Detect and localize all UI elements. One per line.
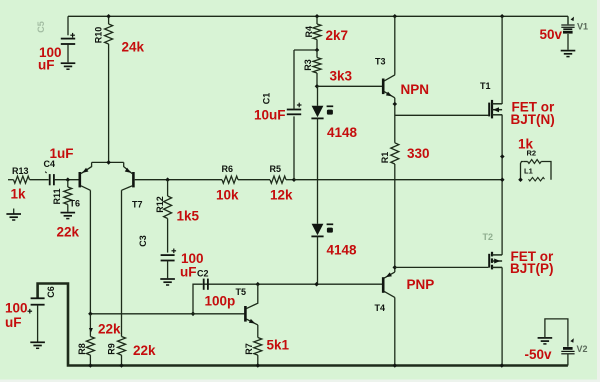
wire T3 collector to rail [394, 16, 396, 75]
label 22k R9 [133, 343, 156, 358]
label T1 [480, 81, 491, 91]
wire T1 drain [501, 16, 503, 104]
resistor R1 330 [391, 143, 399, 272]
node A input junction [66, 177, 71, 182]
label NPN [401, 82, 430, 97]
ground C6 [30, 342, 45, 348]
wire C4 to node A [54, 179, 79, 181]
resistor R4 2k7 [313, 16, 321, 50]
capacitor C6 [28, 298, 45, 341]
label R7 [244, 343, 254, 355]
wire feedback to output [294, 179, 502, 181]
label 5k1 [267, 338, 290, 353]
resistor R10 [105, 16, 113, 162]
ground V1 [561, 51, 576, 57]
label 2k7 [326, 28, 349, 43]
ground C5 [61, 63, 76, 69]
label T3 [375, 57, 386, 67]
node output tap [500, 177, 505, 182]
transistor U-T2 mosfet [489, 252, 502, 270]
resistor R6 10k [222, 176, 270, 183]
node D1 junction [315, 84, 320, 89]
svg-text:330: 330 [407, 146, 430, 161]
label 50v [540, 27, 563, 42]
transistor T3 [383, 75, 395, 98]
svg-text:T1: T1 [480, 81, 491, 91]
wire T6 collector [89, 190, 91, 313]
node tail junction [106, 160, 111, 165]
wire V1 drop [567, 16, 569, 24]
svg-text:R12: R12 [155, 196, 165, 213]
label 100uF C5 [38, 45, 62, 73]
wire ground bus [38, 284, 568, 366]
label R6 [222, 164, 234, 174]
ground V2 hook [538, 319, 568, 347]
svg-text:T6: T6 [70, 199, 81, 209]
label T7 [132, 200, 143, 210]
label 12k [270, 188, 293, 203]
svg-text:BJT(P): BJT(P) [510, 261, 554, 276]
label C4 [44, 159, 56, 169]
label D1 [327, 106, 334, 114]
node R4R3 junction [315, 48, 320, 53]
ground C3 [160, 279, 175, 285]
node top rail junctions [106, 14, 504, 19]
label R5 [270, 164, 282, 174]
label 330 [407, 146, 430, 161]
label -50v [525, 347, 553, 362]
svg-text:R13: R13 [12, 166, 29, 176]
node T2 gate junction [393, 265, 398, 270]
resistor R2 [521, 160, 552, 180]
svg-text:4148: 4148 [327, 243, 358, 258]
label 100p [205, 294, 236, 309]
diode D1 [311, 86, 323, 224]
svg-text:22k: 22k [133, 343, 156, 358]
svg-text:10k: 10k [216, 188, 239, 203]
svg-text:T7: T7 [132, 200, 143, 210]
wire C2 left bracket [193, 284, 203, 314]
label T4 [375, 303, 386, 313]
svg-text:C2: C2 [197, 269, 209, 279]
label 24k [122, 40, 145, 55]
resistor R9 22k [118, 337, 126, 366]
transistor T5 [245, 284, 257, 325]
label 4148 lower [327, 243, 358, 258]
svg-text:T5: T5 [236, 287, 247, 297]
svg-text:1k: 1k [11, 187, 27, 202]
svg-text:V1: V1 [577, 22, 588, 32]
label R9 [107, 343, 117, 355]
wire D1 node to T3 base [317, 85, 382, 87]
resistor R12 [164, 180, 172, 253]
resistor R8 22k [86, 314, 94, 366]
svg-text:3k3: 3k3 [330, 69, 353, 84]
node R2 junction [518, 177, 523, 182]
svg-text:12k: 12k [270, 188, 293, 203]
svg-text:C1: C1 [262, 93, 272, 105]
label C6 [46, 286, 56, 298]
label R4 [304, 26, 314, 38]
label 22k R8 [98, 322, 121, 337]
label T5 [236, 287, 247, 297]
label L1 [524, 167, 533, 176]
wire tail bar [92, 161, 124, 163]
wire to T1 gate [395, 114, 489, 116]
resistor R5 12k [270, 176, 294, 183]
label T6 [70, 199, 81, 209]
capacitor C1 [287, 50, 302, 180]
svg-text:uF: uF [38, 58, 55, 73]
label 1uF [50, 146, 74, 161]
svg-text:V2: V2 [577, 344, 588, 354]
transistor T4 [383, 272, 395, 297]
svg-text:2k7: 2k7 [326, 28, 349, 43]
svg-text:4148: 4148 [327, 125, 358, 140]
battery V2 [561, 338, 574, 365]
svg-text:R3: R3 [303, 59, 313, 71]
svg-text:C5: C5 [36, 21, 46, 33]
label 4148 upper [327, 125, 358, 140]
svg-text:1k5: 1k5 [177, 209, 200, 224]
label R10 [94, 27, 104, 44]
svg-text:R7: R7 [244, 343, 254, 355]
node D2 cathode junction [314, 282, 319, 287]
label BJT(P) [510, 261, 554, 276]
label T2 [483, 232, 494, 242]
label R13 [12, 166, 29, 176]
wire T7 collector [121, 190, 123, 336]
svg-text:uF: uF [180, 265, 197, 280]
svg-text:BJT(N): BJT(N) [511, 112, 555, 127]
svg-text:PNP: PNP [407, 277, 435, 292]
svg-text:-50v: -50v [525, 347, 553, 362]
label PNP [407, 277, 435, 292]
label 1k input [11, 187, 27, 202]
label C5 [36, 21, 46, 33]
label 100uF C6 [5, 301, 28, 331]
svg-text:R9: R9 [107, 343, 117, 355]
svg-text:100: 100 [5, 301, 28, 316]
diode D2 [311, 224, 323, 284]
svg-text:R6: R6 [222, 164, 234, 174]
wire T7 base row [135, 179, 222, 181]
label V2 [577, 344, 588, 354]
label 1k5 [177, 209, 200, 224]
svg-text:10uF: 10uF [254, 108, 286, 123]
node R12 junction [165, 177, 170, 182]
node bus junctions [88, 363, 504, 368]
wire T4 collector [394, 297, 396, 365]
label 100uF C3 [180, 251, 204, 280]
resistor R7 5k1 [254, 325, 262, 366]
svg-text:R2: R2 [527, 149, 537, 158]
transistor U-T1 mosfet [489, 100, 502, 119]
transistor T7 [122, 162, 134, 190]
svg-text:NPN: NPN [401, 82, 430, 97]
label R12 [155, 196, 165, 213]
svg-text:T3: T3 [375, 57, 386, 67]
wire T3 emitter trunk [394, 98, 396, 143]
capacitor C4 [45, 172, 54, 186]
battery V1 [561, 17, 574, 50]
label 3k3 [330, 69, 353, 84]
resistor R13 [8, 176, 49, 183]
inductor L1 [529, 177, 545, 181]
label 10k [216, 188, 239, 203]
svg-text:5k1: 5k1 [267, 338, 290, 353]
label C3 [138, 235, 148, 247]
wire T1 source trunk [501, 115, 503, 255]
node T6 collector junction [88, 312, 93, 317]
svg-text:R1: R1 [380, 152, 390, 164]
label R2 [527, 149, 537, 158]
label 1k R2 [518, 137, 534, 152]
svg-text:uF: uF [5, 315, 22, 330]
resistor R3 3k3 [313, 50, 321, 86]
ground R11 [61, 213, 76, 219]
svg-text:R11: R11 [52, 188, 62, 204]
capacitor C3 [161, 249, 177, 279]
node T5 collector junction [256, 282, 261, 287]
label V1 [577, 22, 588, 32]
node T3 emitter junction [393, 102, 398, 107]
label D2 [327, 224, 334, 232]
node stray dot [500, 154, 505, 159]
svg-text:C3: C3 [138, 235, 148, 247]
svg-text:R8: R8 [77, 343, 87, 355]
label R1 [380, 152, 390, 164]
node C1 junction [292, 177, 297, 182]
svg-text:C6: C6 [46, 286, 56, 298]
transistor T6 [80, 162, 92, 190]
node C2 junction [191, 312, 196, 317]
label 10uF [254, 108, 286, 123]
wire to T2 gate [395, 266, 489, 268]
wire T2 source trunk [501, 267, 503, 365]
svg-text:R4: R4 [304, 26, 314, 38]
label FET or P [511, 249, 554, 264]
svg-text:R10: R10 [94, 27, 104, 44]
label C1 [262, 93, 272, 105]
capacitor C5 [61, 16, 75, 62]
label C2 [197, 269, 209, 279]
label BJT(N) [511, 112, 555, 127]
capacitor C2 [204, 279, 208, 290]
label 22k R11 [57, 225, 80, 240]
wire T5 base row [90, 313, 244, 315]
label R3 [303, 59, 313, 71]
svg-text:T2: T2 [483, 232, 494, 242]
svg-text:22k: 22k [98, 322, 121, 337]
label FET or N [512, 100, 555, 115]
wire C1 top to R4R3 node [294, 49, 317, 51]
svg-text:L1: L1 [524, 167, 533, 176]
wire top +50V rail [68, 15, 568, 17]
svg-text:T4: T4 [375, 303, 386, 313]
resistor R11 22k [64, 180, 72, 212]
label R11 [52, 188, 62, 204]
svg-text:22k: 22k [57, 225, 80, 240]
svg-text:R5: R5 [270, 164, 282, 174]
wire T4 base row [203, 283, 382, 285]
svg-text:50v: 50v [540, 27, 563, 42]
svg-text:1uF: 1uF [50, 146, 74, 161]
svg-text:100p: 100p [205, 294, 236, 309]
ground input [6, 209, 21, 221]
label R8 [77, 343, 87, 355]
svg-text:24k: 24k [122, 40, 145, 55]
